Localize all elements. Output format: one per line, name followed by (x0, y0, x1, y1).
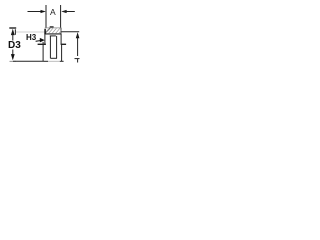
part: bore right wall (56, 36, 58, 58)
part: top bump (50, 26, 54, 28)
part: rim bar right (61, 43, 66, 45)
extension line from D3 bottom to part bottom (13, 60, 43, 62)
dimension D3: upper line with up arrowhead (11, 29, 15, 35)
part: top flange hatched band (45, 28, 62, 34)
hatch lines (45, 28, 61, 33)
part: upper left wall (44, 34, 46, 45)
dimension A: left arrowhead (41, 10, 46, 13)
label A (50, 8, 56, 17)
part: bore left wall (49, 36, 51, 58)
left surface line (light) (16, 31, 45, 33)
left surface line end tick (14, 29, 16, 35)
dimension A: right extension line (60, 5, 62, 28)
label H3 (26, 34, 36, 42)
darker left edge of band (44, 29, 46, 34)
part: lower right wall (61, 45, 63, 62)
part: upper right wall (60, 34, 62, 45)
dimension D3: bottom tick (10, 60, 17, 62)
background (0, 0, 100, 75)
dimension A: left extension line (45, 5, 47, 28)
right surface line (61, 31, 79, 33)
H3 leader arrow (36, 40, 41, 43)
right dimension: bottom tick (75, 58, 80, 60)
dimension A: right arrowhead (61, 10, 66, 13)
dark first hatch stroke (45, 28, 50, 33)
part: rim bar left (38, 43, 46, 45)
dimension D3: top tick (9, 27, 16, 29)
right dimension: bottom tail (77, 59, 79, 63)
label D3 (8, 41, 21, 51)
part: bore bottom (50, 57, 57, 59)
part: lower left wall (42, 42, 44, 61)
right dimension: up arrowhead at surface line (76, 32, 80, 38)
dimension A: right arrow line (63, 11, 75, 13)
part: cavity top line (50, 35, 56, 37)
dimension A: left arrow line (28, 11, 45, 13)
part: bottom edge (dark corners, faint middle) (43, 60, 48, 62)
dimension D3: lower line with down arrowhead (12, 50, 14, 58)
right dimension: vertical line (77, 35, 79, 57)
